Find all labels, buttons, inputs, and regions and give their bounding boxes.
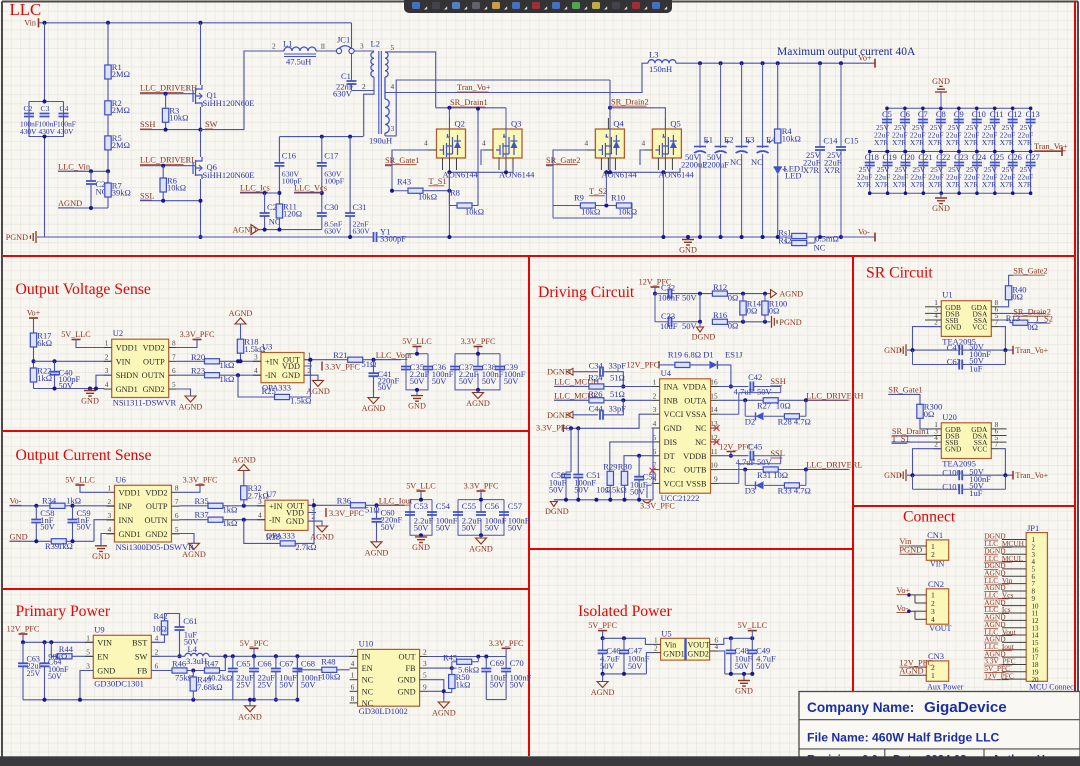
val R27 bbox=[776, 401, 791, 411]
svg-text:X7R: X7R bbox=[982, 180, 997, 189]
svg-text:AGND: AGND bbox=[238, 712, 262, 721]
svg-text:NC: NC bbox=[814, 243, 826, 253]
capacitor E2 bbox=[715, 135, 734, 154]
OCS bank1 frame bbox=[410, 500, 432, 537]
IC U1 bbox=[933, 290, 999, 347]
net label 12V_PFC cn3 bbox=[899, 658, 933, 667]
valb C51 bbox=[574, 485, 590, 495]
wire 3.3V to pin8 bbox=[177, 340, 197, 348]
wire R17-R22 bbox=[33, 347, 35, 368]
val C45b bbox=[757, 457, 773, 467]
svg-text:FB: FB bbox=[405, 664, 416, 673]
junction c43 left bbox=[911, 348, 915, 352]
svg-text:4.7uF: 4.7uF bbox=[734, 387, 754, 397]
wire mcuh row bbox=[554, 386, 589, 388]
wire C66 col bbox=[253, 656, 255, 668]
3.3V_PFC port under U4 bbox=[640, 485, 675, 510]
ref C3 bbox=[41, 104, 50, 113]
wire FB row bbox=[151, 670, 172, 672]
svg-text:630V: 630V bbox=[324, 227, 342, 236]
resistor R31 bbox=[763, 467, 778, 472]
val C100a bbox=[969, 466, 985, 476]
junction c34 ina bbox=[621, 385, 625, 389]
resistor R11 bbox=[276, 204, 282, 218]
value NC of E4 bbox=[751, 157, 763, 167]
IC U20 bbox=[933, 412, 999, 469]
svg-text:10kΩ: 10kΩ bbox=[782, 134, 801, 144]
svg-text:C20: C20 bbox=[900, 152, 914, 162]
svg-text:VDD2: VDD2 bbox=[143, 344, 165, 353]
wire Q6 source to PGND bbox=[200, 179, 202, 237]
val2 C31 bbox=[353, 227, 371, 236]
svg-text:25V: 25V bbox=[27, 669, 41, 678]
capacitor C51 bbox=[573, 475, 583, 478]
svg-text:EN: EN bbox=[362, 664, 373, 673]
val R100 bbox=[769, 306, 780, 316]
ref C36 bbox=[432, 362, 446, 372]
svg-text:C12: C12 bbox=[1008, 109, 1022, 119]
svg-text:OUTB: OUTB bbox=[684, 466, 707, 475]
junction output bus x700 bbox=[698, 61, 702, 65]
svg-text:R23: R23 bbox=[191, 366, 205, 376]
wire dis drop bbox=[610, 442, 652, 471]
svg-text:LED: LED bbox=[785, 171, 802, 181]
valb C65 bbox=[236, 679, 252, 689]
wire 3v3 pin8 ocs bbox=[180, 485, 201, 492]
wire 3v3 stem ocs bbox=[480, 491, 482, 500]
svg-text:INN: INN bbox=[119, 516, 134, 525]
power label 3.3V_PFC drv bbox=[536, 423, 571, 432]
wire cap bank bottom bus bbox=[29, 102, 64, 137]
wire r32 bottom bbox=[243, 500, 245, 506]
svg-text:C6: C6 bbox=[900, 109, 910, 119]
val C42a bbox=[734, 387, 754, 397]
capacitor C101 bbox=[959, 484, 962, 494]
svg-text:2MΩ: 2MΩ bbox=[112, 140, 130, 150]
wire dsa row bbox=[999, 312, 1045, 314]
junction outb branch bbox=[743, 468, 747, 472]
ref R100 bbox=[769, 298, 787, 308]
junction c44 inb bbox=[621, 398, 625, 402]
wire C68 col bbox=[296, 656, 298, 668]
DGND port u4 b bbox=[547, 411, 573, 420]
svg-text:JC1: JC1 bbox=[337, 35, 350, 45]
svg-text:430V: 430V bbox=[20, 127, 37, 136]
junction driverl branch bbox=[804, 468, 808, 472]
val C33a bbox=[660, 321, 678, 331]
capacitor C8 bbox=[936, 109, 946, 123]
values of C7 bbox=[910, 123, 926, 147]
net label 3.3V_PFC jp1 pin18 bbox=[984, 657, 1015, 666]
val R13 bbox=[1027, 322, 1038, 332]
val R18 bbox=[244, 344, 265, 354]
svg-text:INP: INP bbox=[119, 502, 133, 511]
svg-text:CN1: CN1 bbox=[927, 530, 943, 540]
capacitor C11 bbox=[990, 109, 1004, 123]
valb C63 bbox=[27, 669, 41, 678]
net label LLC_Vin jp1 pin7 bbox=[984, 576, 1013, 585]
net label T_S2 sr bbox=[1035, 314, 1053, 323]
svg-text:6: 6 bbox=[172, 366, 176, 375]
values3 of C14 bbox=[803, 165, 819, 175]
svg-text:1kΩ: 1kΩ bbox=[58, 541, 73, 551]
svg-text:12V_PFC: 12V_PFC bbox=[984, 671, 1014, 680]
svg-text:1uF: 1uF bbox=[969, 488, 983, 498]
capacitor C19 bbox=[883, 152, 897, 166]
net label SR_Drain2 bbox=[611, 97, 649, 106]
wire c62 loop bbox=[913, 350, 1006, 364]
svg-text:2MΩ: 2MΩ bbox=[112, 105, 130, 115]
resistor R37 bbox=[208, 517, 223, 522]
net label DGND jp1 pin3 bbox=[984, 546, 1006, 555]
svg-text:R42: R42 bbox=[154, 611, 168, 621]
junction c49 bot bbox=[750, 672, 754, 676]
svg-text:AGND: AGND bbox=[229, 309, 253, 318]
ref Rs2 bbox=[778, 235, 791, 245]
val R14 bbox=[747, 306, 758, 316]
svg-text:VCC: VCC bbox=[972, 323, 987, 332]
capacitor C65 bbox=[228, 669, 238, 672]
svg-text:AGND: AGND bbox=[233, 225, 257, 234]
net label SR_Drain1 sr bbox=[892, 427, 930, 436]
wire bottom rail pp bbox=[23, 699, 254, 701]
junction C41 top bbox=[372, 358, 376, 362]
wire 3v3 stem bbox=[477, 347, 479, 354]
resistor R40 bbox=[1005, 286, 1011, 300]
section title Connect bbox=[903, 509, 956, 526]
wire dt row bbox=[624, 456, 652, 472]
wire C58 col bbox=[35, 506, 37, 520]
svg-text:D3: D3 bbox=[745, 486, 755, 496]
junction C40 top bbox=[53, 359, 57, 363]
valb C68 bbox=[301, 679, 317, 689]
capacitor C35 bbox=[401, 367, 411, 370]
resistor R47 bbox=[205, 668, 220, 673]
GND ground symbol bbox=[735, 681, 753, 696]
svg-text:E3: E3 bbox=[745, 135, 754, 145]
val C33b bbox=[682, 321, 698, 331]
net label Vo- cn2 bbox=[896, 604, 908, 613]
net label DGND jp1 pin1 bbox=[984, 532, 1006, 541]
net label PGND cn1 bbox=[899, 545, 922, 554]
svg-text:5V_LLC: 5V_LLC bbox=[61, 330, 91, 339]
resistor R33 bbox=[784, 483, 799, 488]
svg-text:VDD: VDD bbox=[282, 362, 300, 371]
ref C29 bbox=[267, 202, 281, 212]
svg-text:SR_Gate2: SR_Gate2 bbox=[546, 156, 580, 165]
svg-text:X7R: X7R bbox=[982, 138, 997, 147]
svg-text:X7R: X7R bbox=[892, 180, 907, 189]
svg-text:C34: C34 bbox=[589, 360, 604, 370]
val R33 bbox=[778, 486, 811, 496]
junction output bus x762.6 bbox=[761, 61, 765, 65]
OCS bank2 frame bbox=[458, 500, 504, 536]
value NC of Rs2 bbox=[814, 243, 826, 253]
junction VIN node bbox=[32, 359, 36, 363]
svg-text:LLC_Vin: LLC_Vin bbox=[58, 162, 91, 171]
wire r45 link bbox=[452, 657, 479, 669]
wire C60 bottom bbox=[376, 522, 378, 542]
net label Vin cn1 bbox=[899, 537, 912, 546]
svg-text:50V: 50V bbox=[414, 523, 430, 533]
junction rail rs bbox=[818, 235, 822, 239]
junction bank2 top bbox=[476, 352, 480, 356]
net label LLC_Vcs bbox=[294, 183, 327, 192]
wire SSL row bbox=[140, 200, 201, 202]
note maximum output current bbox=[777, 46, 916, 58]
wire r44 drop bbox=[51, 642, 57, 656]
wire r14 leads bbox=[742, 294, 744, 301]
val C43a bbox=[969, 341, 985, 351]
ref C70 bbox=[510, 658, 524, 668]
svg-text:AGND: AGND bbox=[179, 403, 203, 412]
svg-text:DT: DT bbox=[664, 452, 675, 461]
svg-text:3.3V_PFC: 3.3V_PFC bbox=[183, 476, 218, 485]
connector CN3 bbox=[909, 651, 964, 691]
ref C67 bbox=[279, 658, 293, 668]
svg-text:C7: C7 bbox=[918, 109, 928, 119]
svg-text:R30: R30 bbox=[618, 462, 632, 472]
svg-text:50V: 50V bbox=[436, 523, 452, 533]
wire gnd drop u20 bbox=[913, 449, 942, 476]
svg-text:AGND: AGND bbox=[899, 667, 923, 676]
capacitor C34 bbox=[600, 367, 603, 377]
val C37a bbox=[459, 369, 479, 379]
junction dgnd x596.4 bbox=[594, 498, 598, 502]
wire Q4-Q5 gate link bbox=[640, 150, 643, 165]
svg-text:12: 12 bbox=[710, 433, 718, 442]
svg-text:R34: R34 bbox=[42, 495, 57, 505]
svg-text:5: 5 bbox=[175, 525, 179, 534]
wire LLC_Vin bbox=[58, 170, 108, 172]
svg-text:50V: 50V bbox=[757, 457, 773, 467]
ref R18 bbox=[244, 337, 258, 347]
svg-text:Vo-: Vo- bbox=[896, 604, 908, 613]
vala C64 bbox=[48, 665, 69, 674]
svg-text:3: 3 bbox=[108, 511, 112, 520]
vala C46 bbox=[600, 654, 620, 664]
net label LLC_Ics jp1 pin11 bbox=[984, 605, 1010, 614]
svg-text:C21: C21 bbox=[918, 152, 932, 162]
wire output bus Vo+ bbox=[676, 62, 875, 64]
ref C33 bbox=[661, 311, 675, 321]
svg-text:3: 3 bbox=[254, 352, 258, 361]
wire L4 right bbox=[209, 655, 358, 657]
svg-text:GD30LD1002: GD30LD1002 bbox=[359, 706, 408, 716]
svg-text:GND: GND bbox=[92, 552, 110, 561]
svg-text:GND: GND bbox=[97, 667, 115, 676]
junction SSL/Q6 source bbox=[199, 199, 203, 203]
capacitor C31 bbox=[345, 213, 355, 216]
junction dgnd x578.3 bbox=[576, 498, 580, 502]
resistor R6 bbox=[160, 176, 186, 193]
wire srdrain1 row bbox=[892, 435, 933, 437]
wire OUTN row bbox=[177, 374, 205, 376]
wire Vin rail bbox=[40, 22, 352, 24]
svg-text:X7R: X7R bbox=[1018, 138, 1033, 147]
svg-text:Q5: Q5 bbox=[670, 119, 680, 129]
svg-text:10kΩ: 10kΩ bbox=[465, 207, 484, 217]
svg-text:R46: R46 bbox=[172, 659, 186, 669]
svg-text:25V: 25V bbox=[258, 679, 274, 689]
resistor R100 bbox=[762, 301, 768, 315]
net label SW bbox=[205, 120, 218, 129]
wire c32 right bbox=[672, 293, 713, 295]
junction R43 left bbox=[390, 189, 394, 193]
svg-text:SiHH120N60E: SiHH120N60E bbox=[203, 170, 255, 180]
net label SSL drv bbox=[770, 449, 784, 458]
svg-text:GigaDevice: GigaDevice bbox=[924, 699, 1007, 716]
wire Q2 sources to rail bbox=[448, 172, 450, 237]
section border vertical left-middle x=529 bbox=[528, 256, 530, 756]
svg-text:100pF: 100pF bbox=[324, 177, 345, 186]
svg-text:R48: R48 bbox=[321, 657, 335, 667]
svg-text:-IN: -IN bbox=[269, 516, 281, 525]
wire 3v3 stem u10 bbox=[505, 648, 507, 656]
values of C10 bbox=[964, 123, 980, 147]
resistor Rs2 bbox=[792, 240, 807, 245]
GND ground symbol bbox=[408, 396, 426, 411]
capacitor C14 bbox=[815, 136, 838, 151]
svg-text:OUTP: OUTP bbox=[146, 502, 168, 511]
valb C47 bbox=[628, 661, 644, 671]
wire gnd2 to agnd bbox=[177, 389, 191, 396]
capacitor C40 bbox=[50, 368, 81, 391]
pin number 1 of Q6 bbox=[185, 156, 189, 165]
junction -IN node bbox=[236, 373, 240, 377]
svg-text:50V: 50V bbox=[504, 376, 520, 386]
svg-text:C15: C15 bbox=[844, 136, 858, 146]
title block bbox=[799, 692, 1080, 758]
resistor R26 bbox=[589, 398, 604, 403]
svg-text:X7R: X7R bbox=[874, 138, 889, 147]
junction out fb bbox=[308, 358, 312, 362]
values of C26 bbox=[1000, 165, 1016, 189]
val R16 bbox=[728, 321, 739, 331]
section title Driving Circuit bbox=[538, 284, 635, 301]
wire C30 bottom bbox=[321, 216, 323, 230]
svg-text:10Ω: 10Ω bbox=[776, 401, 791, 411]
val R21 bbox=[362, 359, 377, 369]
junction r14 top bbox=[741, 292, 745, 296]
svg-text:GND: GND bbox=[945, 323, 962, 332]
12V_PFC port vddb bbox=[719, 443, 752, 452]
svg-text:GND: GND bbox=[884, 346, 902, 355]
section title Isolated Power bbox=[578, 603, 672, 620]
svg-text:GND: GND bbox=[398, 687, 416, 696]
svg-text:OUT: OUT bbox=[399, 653, 416, 662]
net label SR_Drain2 sr bbox=[1013, 307, 1051, 316]
wire c33 row l bbox=[655, 294, 700, 322]
svg-text:U5: U5 bbox=[661, 628, 671, 638]
net label LLC_MCUL jp1 pin4 bbox=[984, 554, 1023, 563]
wire fb down bbox=[238, 375, 275, 397]
wire OUTN row ocs bbox=[180, 519, 209, 521]
svg-text:Driving Circuit: Driving Circuit bbox=[538, 284, 635, 301]
svg-text:0Ω: 0Ω bbox=[769, 306, 780, 316]
value2 of E2 bbox=[703, 160, 729, 170]
capacitor C47 bbox=[619, 650, 629, 653]
svg-text:BST: BST bbox=[132, 638, 147, 647]
capacitor C2 bbox=[24, 114, 34, 117]
output capacitor bank bbox=[870, 108, 1062, 193]
power port 5V_LLC bbox=[65, 476, 95, 486]
section border SR Circuit / Connect bbox=[853, 505, 1075, 507]
val C30 bbox=[324, 220, 343, 229]
ref of R4 bbox=[782, 126, 793, 136]
svg-text:1: 1 bbox=[105, 339, 109, 348]
val C4 bbox=[57, 120, 76, 129]
ref C35 bbox=[410, 362, 424, 372]
DGND symbol drv bottom bbox=[545, 502, 569, 517]
svg-text:C4: C4 bbox=[60, 104, 69, 113]
wire r12 right bbox=[727, 293, 770, 295]
svg-text:5V_LLC: 5V_LLC bbox=[65, 476, 95, 485]
junction vddb bbox=[729, 454, 733, 458]
wire outb row bbox=[719, 469, 764, 471]
ref R23 bbox=[191, 366, 205, 376]
wire Q4 Q5 drain segs bbox=[610, 118, 665, 158]
svg-text:E1: E1 bbox=[704, 135, 713, 145]
svg-text:50V: 50V bbox=[459, 376, 475, 386]
ref+val R19 bbox=[668, 349, 701, 359]
svg-text:GD30DC1301: GD30DC1301 bbox=[94, 678, 144, 688]
junction output bus x720.6 bbox=[719, 61, 723, 65]
resistor R34 bbox=[50, 503, 65, 508]
wire C40 bottom bbox=[54, 375, 56, 389]
value of L3 bbox=[649, 64, 672, 74]
wire R1-R2 bbox=[107, 79, 109, 101]
junction bank1 bot ocs bbox=[419, 533, 423, 537]
val C62b bbox=[969, 363, 983, 373]
junction rail gnd bbox=[78, 698, 82, 702]
connector CN1 bbox=[909, 530, 949, 568]
ref C17 bbox=[324, 151, 338, 161]
junction rail Q5 bbox=[661, 235, 665, 239]
svg-text:C8: C8 bbox=[936, 109, 946, 119]
svg-text:6: 6 bbox=[155, 662, 159, 671]
svg-text:C61: C61 bbox=[183, 616, 197, 626]
capacitor C13 bbox=[1026, 109, 1040, 123]
ref R34 bbox=[42, 495, 57, 505]
svg-text:NC: NC bbox=[362, 676, 374, 685]
ref R20 bbox=[191, 352, 205, 362]
svg-text:NC: NC bbox=[664, 466, 676, 475]
capacitor C68 bbox=[292, 669, 302, 672]
val R49 bbox=[197, 682, 222, 692]
svg-text:R9: R9 bbox=[574, 193, 584, 203]
svg-text:U7: U7 bbox=[266, 489, 276, 499]
ref R300 bbox=[924, 402, 942, 412]
svg-text:0Ω: 0Ω bbox=[924, 409, 935, 419]
wire transformer pin3 to SR_Drain2 bbox=[385, 80, 610, 136]
svg-text:Q3: Q3 bbox=[511, 119, 521, 129]
wire AGND row bbox=[58, 207, 108, 209]
values of C22 bbox=[928, 165, 944, 189]
power port bbox=[1061, 147, 1063, 156]
svg-text:3.3V_PFC: 3.3V_PFC bbox=[180, 330, 215, 339]
ref C16 bbox=[282, 151, 296, 161]
capacitor C30 bbox=[317, 213, 327, 216]
svg-text:C24: C24 bbox=[972, 152, 987, 162]
wire c46 col bbox=[602, 638, 604, 650]
svg-text:5: 5 bbox=[172, 380, 176, 389]
svg-text:4: 4 bbox=[254, 366, 258, 375]
section border Output Voltage Sense / Output Current Sense bbox=[3, 430, 530, 432]
wire r46 right bbox=[187, 670, 205, 672]
net label LLC_Iout jp1 pin16 bbox=[984, 642, 1015, 651]
resistor R2 bbox=[105, 98, 130, 115]
